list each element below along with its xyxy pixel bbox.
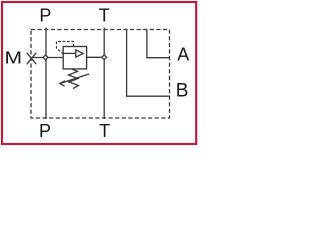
node junction on T line	[102, 55, 107, 60]
plugged test point X at port M	[27, 53, 36, 64]
wire P line (vertical through enclosure)	[45, 28, 47, 120]
spring (zigzag)	[69, 69, 79, 89]
svg-text:T: T	[99, 5, 110, 25]
port label M	[5, 48, 23, 68]
svg-text:P: P	[39, 5, 51, 25]
enclosure (dashed valve-assembly boundary)	[31, 30, 170, 119]
relief valve V1 (body square)	[63, 47, 86, 69]
node junction on P line	[43, 55, 48, 60]
wire T line (vertical through enclosure)	[103, 28, 105, 120]
svg-text:T: T	[99, 121, 110, 141]
wire valve outlet to T line	[87, 56, 105, 58]
svg-text:B: B	[176, 81, 189, 102]
wire B branch	[127, 30, 170, 97]
svg-text:P: P	[39, 121, 51, 141]
relief valve flow arrow	[63, 50, 83, 57]
adjustment arrow through spring	[60, 74, 89, 86]
svg-text:A: A	[177, 45, 189, 65]
wire M to valve inlet	[32, 57, 64, 59]
pilot line (dashed)	[57, 42, 74, 54]
svg-text:M: M	[5, 48, 23, 68]
wire A branch	[147, 30, 170, 58]
